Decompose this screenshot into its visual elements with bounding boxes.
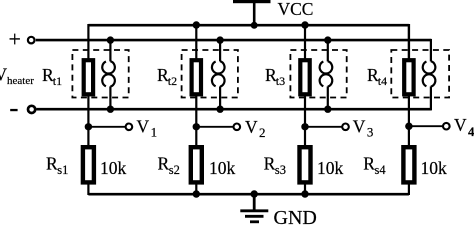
svg-text:s3: s3 [275,163,286,177]
junction: Rt2 top on VCC rail [193,21,200,28]
wire: V1 node to terminal [88,126,125,128]
heater coil 2 (lower loop) [212,74,225,86]
junction: coil3 top on + rail [324,36,331,43]
svg-text:10k: 10k [100,158,127,178]
wire: VCC rail corner to Rt4 top [408,24,410,61]
terminal circle V2 [234,124,241,131]
power symbol VCC (bar and stem) [233,0,271,25]
junction: Rt3 top on VCC rail [301,21,308,28]
label Rt4 [367,65,387,88]
node V2 junction dot [193,123,200,130]
dashed box Rt1 assembly [72,50,128,98]
heater coil 3 (lower loop) [320,74,333,86]
wire: coil4 to - rail corner [430,86,432,110]
svg-text:t2: t2 [168,74,177,88]
resistor Rt1 [84,60,93,94]
wire: Rt1 bottom to Rs1 top (through V1 node) [87,96,89,149]
wire: + rail to coil1 [109,40,111,61]
svg-text:t1: t1 [53,74,62,88]
wire: GND bottom rail [88,193,409,196]
node V4 junction dot [405,123,412,130]
wire: V4 node to terminal [409,125,443,127]
svg-text:R: R [363,154,375,174]
label Rt1 [42,65,62,88]
heater coil 4 (lower loop) [423,74,436,86]
wire: V2 node to terminal [196,126,233,128]
svg-text:10k: 10k [209,158,236,178]
heater coil 2 (upper loop) [212,61,225,73]
label Rt2 [157,65,177,88]
svg-text:R: R [158,154,170,174]
wire: + rail to coil2 [219,40,221,61]
svg-text:V: V [137,116,150,136]
wire: + rail corner to coil4 [430,39,432,62]
node V1 junction dot [85,123,92,130]
wire: - rail [36,108,431,111]
wire: coil2 to - rail [219,86,221,109]
svg-text:VCC: VCC [278,0,314,19]
wire: coil1 to - rail [109,86,111,109]
junction: coil2 bottom on - rail [216,106,223,113]
terminal circle V3 [342,124,349,131]
heater coil 1 (upper loop) [102,61,115,73]
wire: Rs4 bottom to GND rail corner [408,184,410,195]
label Rs1 [46,154,68,177]
wire: + rail [36,39,431,42]
svg-text:4: 4 [468,124,474,139]
junction: coil3 bottom on - rail [324,106,331,113]
label V4 [454,115,474,139]
heater coil 3 (upper loop) [320,61,333,73]
dashed box Rt4 assembly [391,50,449,98]
label Rs3 [264,154,286,177]
node V3 junction dot [301,123,308,130]
wire: Rs3 bottom to GND rail [304,184,306,194]
svg-text:GND: GND [274,207,317,225]
label V3 [353,116,374,139]
svg-text:s2: s2 [169,163,180,177]
terminal label - [10,109,17,111]
wire: Rs2 bottom to GND rail [195,184,197,194]
wire: Rt4 bottom to Rs4 top (through V4 node) [408,96,410,149]
wire: Rt2 bottom to Rs2 top (through V2 node) [195,96,197,149]
wire: VCC top rail [88,24,409,27]
label Rs4 [363,154,386,177]
label Rt3 [265,65,285,88]
resistor Rs2 [191,147,202,182]
junction: Rs3 on GND rail [301,190,308,197]
junction: VCC stem on top rail [251,22,258,29]
svg-text:V: V [353,116,366,136]
wire: Rt3 bottom to Rs3 top (through V3 node) [304,96,306,149]
wire: VCC rail to Rt3 top [304,25,306,61]
svg-text:R: R [264,154,276,174]
svg-text:s1: s1 [57,163,68,177]
svg-text:2: 2 [259,125,266,140]
junction: coil1 bottom on - rail [107,106,114,113]
label Rs2 [158,154,180,177]
junction: coil2 top on + rail [216,36,223,43]
svg-text:10k: 10k [317,158,344,178]
wire: Rs1 bottom to GND rail [87,184,89,195]
wire: VCC rail to Rt1 top [87,24,89,61]
wire: coil3 to - rail [327,86,329,109]
wire: V3 node to terminal [305,126,342,128]
wire: + rail to coil3 [327,40,329,61]
terminal circle - [28,106,35,113]
svg-text:t3: t3 [276,74,285,88]
svg-text:V: V [454,115,467,135]
svg-text:1: 1 [151,125,158,140]
junction: Rs2 on GND rail [193,190,200,197]
ground symbol GND [240,194,268,222]
svg-text:3: 3 [367,125,374,140]
resistor Rt4 [404,60,413,94]
junction: coil1 top on + rail [107,36,114,43]
svg-text:heater: heater [7,75,34,87]
resistor Rs1 [83,147,94,182]
svg-text:+: + [9,27,21,52]
resistor Rs3 [300,147,311,182]
svg-text:s4: s4 [375,163,387,177]
junction: GND stem on bottom rail [251,190,258,197]
svg-text:10k: 10k [421,158,448,178]
heater coil 4 (upper loop) [423,61,436,73]
resistor Rt3 [300,60,309,94]
label V1 [137,116,158,139]
svg-text:R: R [46,154,58,174]
dashed box Rt3 assembly [290,50,346,98]
wire: VCC rail to Rt2 top [195,25,197,61]
terminal circle + [28,37,35,44]
resistor Rt2 [192,60,201,94]
heater coil 1 (lower loop) [102,74,115,86]
terminal circle V4 [443,123,450,130]
svg-text:V: V [245,117,258,137]
resistor Rs4 [403,147,414,182]
terminal circle V1 [126,124,133,131]
svg-text:t4: t4 [378,74,387,88]
label V2 [245,117,266,140]
dashed box Rt2 assembly [182,50,238,98]
